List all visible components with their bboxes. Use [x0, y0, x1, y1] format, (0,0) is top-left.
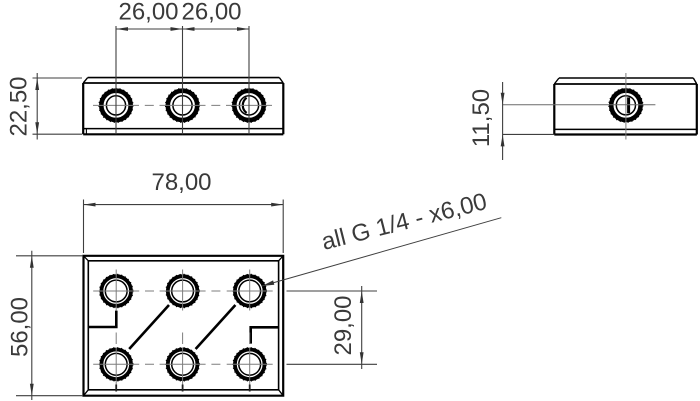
- svg-text:26,00: 26,00: [118, 0, 178, 26]
- svg-text:78,00: 78,00: [151, 169, 211, 196]
- svg-text:29,00: 29,00: [330, 295, 357, 355]
- svg-text:22,50: 22,50: [6, 76, 33, 136]
- svg-text:56,00: 56,00: [7, 297, 34, 357]
- svg-text:26,00: 26,00: [181, 0, 241, 26]
- svg-text:11,50: 11,50: [468, 89, 495, 147]
